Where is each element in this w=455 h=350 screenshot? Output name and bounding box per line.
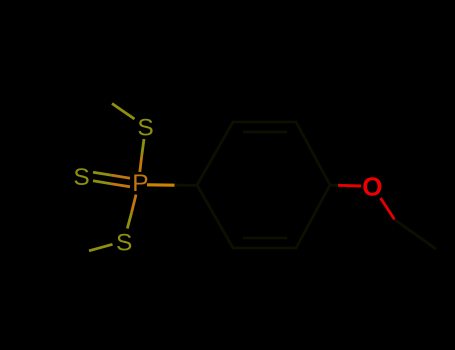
svg-text:S: S [137, 114, 153, 141]
wire: S1-P bond orange half [140, 156, 142, 172]
wire: P=S2 double bond bottom line orange half [111, 184, 130, 187]
wire: O-CH2 bond (red) of ethoxy [381, 198, 395, 220]
wire: P=S2 double bond bottom line olive half [93, 181, 111, 184]
wire: P-S3 bond olive half [127, 213, 131, 229]
wire: C(aryl)-O bond dark half [330, 184, 338, 187]
wire: methyl C-S1 bond (top left) [112, 104, 135, 120]
svg-text:S: S [73, 164, 89, 191]
svg-text:P: P [132, 170, 148, 197]
wire: CH2-CH3 bond (dark) of ethoxy [395, 220, 437, 250]
wire: P-S3 bond orange half [132, 195, 136, 213]
svg-text:O: O [362, 172, 382, 202]
wire: P-C(aryl) bond dark half [175, 184, 198, 187]
svg-text:S: S [116, 229, 132, 256]
benzene ring hexagon [197, 122, 330, 248]
wire: C(aryl)-O bond red half [338, 184, 361, 188]
wire: P=S2 double bond top line olive half [93, 172, 111, 175]
wire: P-C(aryl) bond orange half [147, 183, 175, 186]
wire: S3-methyl bond (bottom left) [89, 244, 113, 251]
wire: P=S2 double bond top line orange half [111, 175, 130, 178]
ring inner double-bond line (bottom) [243, 237, 287, 240]
ring inner double-bond line (top) [243, 131, 287, 134]
wire: S1-P bond olive half [142, 139, 144, 156]
